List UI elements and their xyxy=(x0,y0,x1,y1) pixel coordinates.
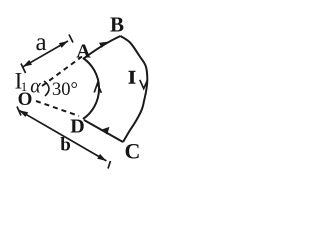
wire: outer arc B to C (radius b) xyxy=(121,36,148,142)
svg-text:C: C xyxy=(125,139,141,164)
arrow on inner arc (current upward toward A) xyxy=(94,84,101,93)
arrow on segment AB (current toward B) xyxy=(99,42,108,48)
arrow on segment CD (current toward D) xyxy=(101,127,110,135)
dimension b: line xyxy=(19,110,106,161)
dimension a: line xyxy=(23,41,68,67)
dimension b: arrowhead lower-right xyxy=(97,154,106,161)
dimension b: end tick upper-left xyxy=(17,107,21,116)
dimension a: arrowhead lower-left xyxy=(23,60,32,67)
arrow on outer arc (current I downward) xyxy=(140,80,148,89)
angle arc at O xyxy=(44,81,49,96)
svg-text:b: b xyxy=(60,135,71,156)
wire: dashed radius O to A xyxy=(42,57,82,87)
svg-text:I: I xyxy=(128,68,136,89)
wire: segment C to D xyxy=(84,120,123,142)
dimension a: end tick upper-right xyxy=(69,35,73,43)
svg-text:30°: 30° xyxy=(52,80,78,100)
svg-text:A: A xyxy=(76,41,91,63)
dimension b: end tick lower-right xyxy=(108,161,111,169)
svg-text:B: B xyxy=(110,13,124,37)
svg-text:α: α xyxy=(30,76,41,98)
svg-text:D: D xyxy=(70,116,84,138)
svg-text:a: a xyxy=(35,29,46,56)
dimension b: arrowhead upper-left xyxy=(19,110,28,117)
wire: dashed radius O to D xyxy=(36,101,79,116)
dimension a: end tick lower-left xyxy=(21,64,26,74)
wire: segment A to B xyxy=(83,36,121,59)
wire: inner arc A to D (radius a) xyxy=(83,58,99,119)
dimension a: arrowhead upper-right xyxy=(59,41,68,48)
svg-text:1: 1 xyxy=(21,79,28,94)
